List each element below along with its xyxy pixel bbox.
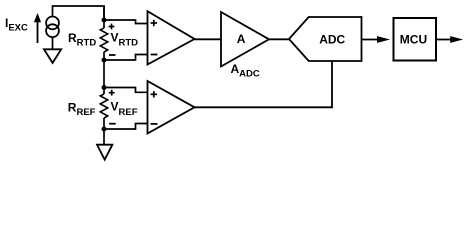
op-amp U2 plus sign: [151, 91, 157, 97]
node: REF+ junction: [102, 85, 107, 90]
op-amp buffer U1: [148, 11, 195, 64]
wire: rail bottom section: [103, 118, 105, 144]
wire: rail between resistors: [103, 52, 105, 94]
wire: buffer1 output to amplifier A: [195, 38, 222, 40]
wire: ADC to MCU arrow: [362, 39, 379, 41]
svg-text:MCU: MCU: [400, 32, 427, 46]
label V_REF plus sign: [109, 90, 115, 96]
label V_RTD minus sign: [109, 54, 116, 56]
wire: buffer2 output to ADC reference input: [195, 61, 333, 107]
node: REF- junction: [102, 127, 107, 132]
wire: amplifier A output to ADC: [269, 38, 289, 40]
ground (bottom of rail): [97, 145, 112, 160]
svg-text:ADC: ADC: [319, 33, 345, 47]
op-amp U2 minus sign: [151, 123, 158, 125]
label V_RTD plus sign: [109, 24, 115, 30]
I_EXC arrow: [37, 20, 39, 43]
current source I_EXC: [46, 17, 59, 38]
wire: REF+ to buffer2 noninverting input: [104, 88, 148, 93]
resistor R_RTD: [100, 28, 107, 52]
MCU block: [394, 18, 437, 61]
op-amp U1 minus sign: [151, 54, 158, 56]
label V_REF minus sign: [109, 123, 116, 125]
op-amp U1 plus sign: [151, 20, 157, 26]
amplifier A: [221, 12, 269, 67]
node: RTD+ junction: [102, 18, 107, 23]
ADC block: [289, 17, 362, 61]
wire: left rail top section: [103, 6, 105, 28]
wire: RTD+ to buffer1 noninverting input: [104, 20, 148, 24]
wire: current source top to rail: [53, 6, 105, 20]
wire: REF- to buffer2 inverting input: [104, 124, 148, 130]
ground (below current source): [44, 49, 61, 63]
wire: RTD- to buffer1 inverting input: [104, 55, 148, 61]
op-amp buffer U2: [148, 81, 195, 134]
wire: current source bottom stub: [52, 37, 54, 48]
svg-text:A: A: [237, 32, 246, 46]
node: RTD- junction: [102, 58, 107, 63]
wire: MCU output arrow: [436, 39, 452, 41]
resistor R_REF: [100, 94, 107, 118]
